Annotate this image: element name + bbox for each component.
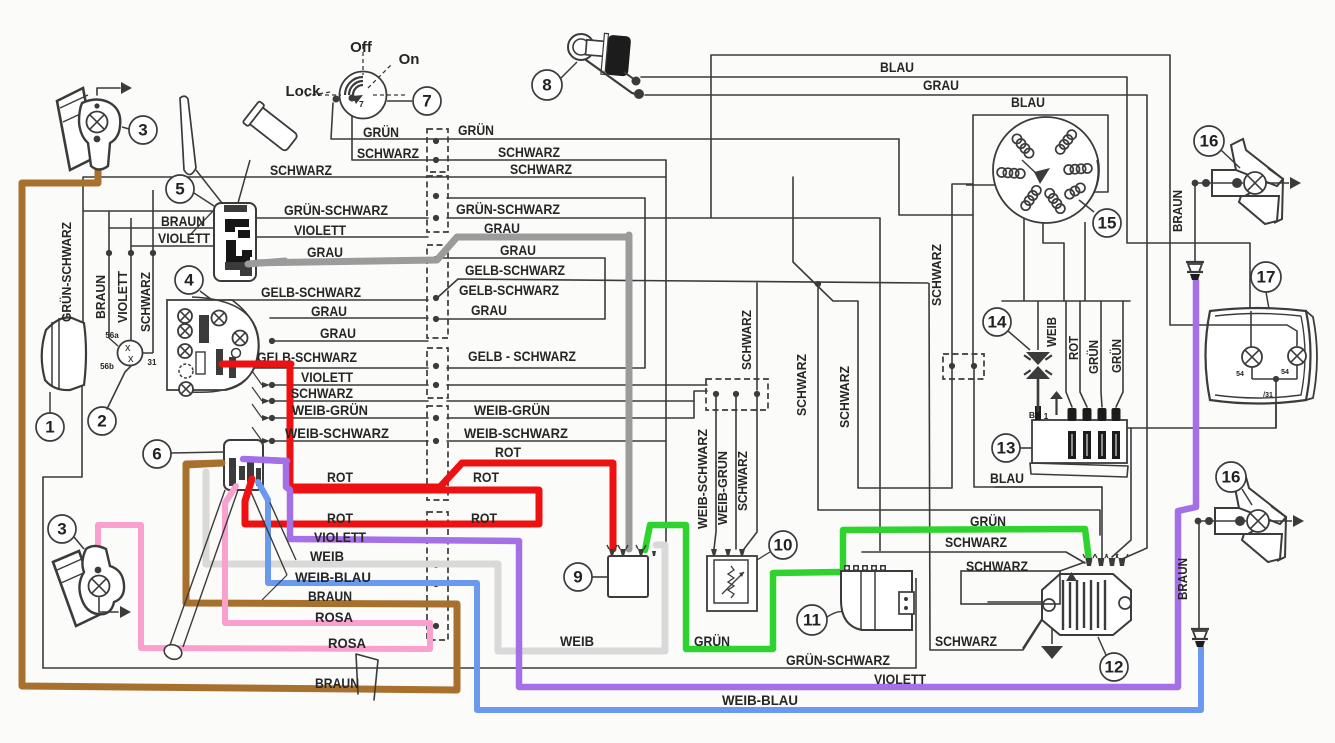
svg-text:BRAUN: BRAUN	[315, 675, 359, 691]
svg-text:16: 16	[1222, 468, 1241, 487]
wire WEIB (white)	[206, 472, 665, 651]
wire: GELB-SCHWARZ left row	[230, 299, 428, 301]
wire: regulator ground & frame	[988, 601, 1046, 603]
svg-text:GRAU: GRAU	[320, 325, 356, 341]
throttle grip	[243, 101, 301, 154]
ignition coil 9	[564, 545, 656, 597]
svg-text:SCHWARZ: SCHWARZ	[291, 385, 353, 401]
wire: BLAU magneto to regulator	[972, 115, 974, 366]
svg-text:WEIB-BLAU: WEIB-BLAU	[722, 692, 798, 708]
surge arrester 14	[983, 308, 1052, 412]
svg-text:GRAU: GRAU	[923, 77, 959, 93]
wire: headlamp to switch	[83, 210, 214, 212]
svg-text:14: 14	[988, 313, 1007, 332]
wire GRAU (grey)	[250, 237, 627, 263]
control lever sketch	[170, 490, 225, 645]
wire	[858, 487, 952, 489]
svg-text:x: x	[128, 353, 134, 365]
svg-text:3: 3	[57, 520, 66, 539]
wire: WEIB-SCHWARZ right	[447, 440, 666, 442]
svg-text:6: 6	[152, 445, 161, 464]
wire: GRUEN-SCHWARZ bottom run	[43, 667, 916, 669]
svg-text:BRAUN: BRAUN	[1175, 558, 1190, 600]
svg-text:GRÜN-SCHWARZ: GRÜN-SCHWARZ	[786, 652, 890, 668]
dimmer switch 6	[143, 440, 263, 490]
wire	[1112, 428, 1131, 557]
turn signal lamp 3 (rear left)	[48, 515, 131, 626]
svg-text:54: 54	[1236, 371, 1244, 378]
svg-text:13: 13	[997, 439, 1016, 458]
connector strip	[427, 129, 448, 172]
svg-text:9: 9	[573, 568, 582, 587]
svg-text:GRÜN-SCHWARZ: GRÜN-SCHWARZ	[284, 202, 388, 218]
wire: top BLAU / GRAU from horn	[711, 54, 1170, 56]
wire: magneto center feed	[966, 184, 1040, 186]
handlebar switch 5	[166, 175, 256, 281]
svg-text:GRAU: GRAU	[471, 302, 507, 318]
svg-text:GRAU: GRAU	[311, 303, 347, 319]
svg-text:GRÜN: GRÜN	[1086, 340, 1101, 374]
svg-text:BRAUN: BRAUN	[161, 213, 205, 229]
svg-text:BRAUN: BRAUN	[308, 588, 352, 604]
svg-text:SCHWARZ: SCHWARZ	[929, 244, 944, 306]
turn signal lamp 3 (front left)	[57, 82, 157, 170]
terminal block 13	[992, 391, 1128, 477]
clutch lever	[180, 96, 196, 174]
wire: GELB-SCHWARZ long row to right	[437, 279, 928, 298]
svg-text:GELB - SCHWARZ: GELB - SCHWARZ	[468, 348, 576, 364]
svg-text:GELB-SCHWARZ: GELB-SCHWARZ	[465, 262, 565, 278]
svg-text:5: 5	[175, 180, 184, 199]
headlamp 1	[36, 318, 86, 442]
svg-text:ROT: ROT	[1066, 336, 1081, 360]
svg-text:VIOLETT: VIOLETT	[158, 230, 210, 246]
wire: BRAUN bulb feed	[109, 227, 218, 229]
svg-text:WEIB-GRÜN: WEIB-GRÜN	[474, 402, 550, 418]
wire: comp10 connector feeds	[272, 384, 428, 386]
svg-text:GRÜN: GRÜN	[1109, 339, 1124, 373]
svg-text:1: 1	[45, 418, 54, 437]
svg-text:8: 8	[542, 76, 551, 95]
wire: SCHWARZ loop right of connector	[428, 176, 666, 178]
svg-text:16: 16	[1200, 132, 1219, 151]
wire VIOLETT (violet)	[245, 281, 1196, 687]
wire: headlamp frame left	[82, 177, 84, 342]
wire	[1122, 548, 1147, 559]
connector 2pol	[943, 354, 984, 379]
wire: GRAU loop 258/319	[443, 257, 605, 259]
svg-text:ROSA: ROSA	[328, 635, 366, 651]
svg-text:SCHWARZ: SCHWARZ	[138, 272, 153, 332]
wire: magneto leads down	[1023, 212, 1025, 301]
svg-text:BRAUN: BRAUN	[93, 275, 108, 319]
svg-text:GRÜN-SCHWARZ: GRÜN-SCHWARZ	[456, 201, 560, 217]
svg-text:BRAUN: BRAUN	[1170, 190, 1185, 232]
svg-text:11: 11	[803, 611, 821, 630]
svg-text:GRÜN-SCHWARZ: GRÜN-SCHWARZ	[59, 222, 74, 322]
wire: comp10 drops	[714, 397, 716, 549]
svg-text:VIOLETT: VIOLETT	[314, 529, 366, 545]
svg-text:VIOLETT: VIOLETT	[874, 671, 926, 687]
plug front	[1194, 183, 1196, 262]
switch cluster 4	[167, 266, 259, 396]
svg-text:WEIB-BLAU: WEIB-BLAU	[295, 569, 371, 585]
svg-text:BLAU: BLAU	[880, 59, 914, 75]
wire: GRAU left row	[270, 317, 428, 319]
junction dots	[433, 138, 439, 144]
svg-text:SCHWARZ: SCHWARZ	[794, 354, 809, 416]
wire: GRUEN-SCHWARZ left	[254, 217, 428, 219]
wire: GRAU left row2	[272, 340, 428, 342]
plug rear	[1198, 521, 1200, 629]
wire: BLAU to regulator right	[995, 486, 1102, 488]
svg-text:GRÜN: GRÜN	[694, 633, 730, 649]
wire: bulb columns	[108, 211, 110, 338]
wire: handlebar SCHWARZ diagonal	[793, 177, 858, 301]
svg-text:WEIB-GRÜN: WEIB-GRÜN	[715, 451, 730, 525]
wire: GRUEN-SCHWARZ right	[447, 217, 880, 219]
svg-text:ROSA: ROSA	[315, 609, 353, 625]
wire: tail lamp leads	[1250, 311, 1252, 347]
svg-text:SCHWARZ: SCHWARZ	[739, 310, 754, 370]
svg-text:WEIB: WEIB	[1044, 317, 1059, 347]
svg-text:ROT: ROT	[495, 444, 521, 460]
wire BRAUN (brown)	[22, 135, 457, 690]
svg-text:56a: 56a	[105, 331, 119, 340]
svg-text:VIOLETT: VIOLETT	[301, 369, 353, 385]
wire: VIOLETT bulb feed	[131, 245, 218, 247]
ground	[1041, 646, 1063, 659]
tail light 17	[1206, 262, 1318, 428]
svg-text:WEIB: WEIB	[560, 633, 594, 649]
wire: magneto BLAU frame	[973, 115, 1108, 192]
svg-text:GRAU: GRAU	[484, 220, 520, 236]
svg-text:SCHWARZ: SCHWARZ	[357, 145, 419, 161]
cluster pin fan	[262, 382, 270, 388]
svg-text:SCHWARZ: SCHWARZ	[966, 558, 1028, 574]
svg-text:SCHWARZ: SCHWARZ	[498, 144, 560, 160]
svg-text:SCHWARZ: SCHWARZ	[735, 451, 750, 511]
svg-text:WEIB-SCHWARZ: WEIB-SCHWARZ	[464, 425, 568, 441]
svg-text:7: 7	[359, 99, 364, 109]
svg-text:WEIB: WEIB	[310, 548, 344, 564]
svg-text:On: On	[399, 51, 420, 68]
wire: magneto SCHWARZ drop	[951, 184, 953, 488]
svg-text:BLAU: BLAU	[990, 470, 1024, 486]
wire: comp11 feeds	[817, 283, 819, 510]
wire: tail light leads	[1126, 427, 1276, 429]
svg-text:WEIB-GRÜN: WEIB-GRÜN	[292, 402, 368, 418]
svg-text:7: 7	[422, 92, 431, 111]
svg-text:4: 4	[184, 271, 194, 290]
svg-text:WEIB-SCHWARZ: WEIB-SCHWARZ	[285, 425, 389, 441]
svg-text:12: 12	[1105, 658, 1124, 677]
wire: SCHWARZ to regulator	[862, 552, 1085, 563]
svg-text:SCHWARZ: SCHWARZ	[510, 161, 572, 177]
svg-text:ROT: ROT	[473, 469, 499, 485]
svg-text:GELB-SCHWARZ: GELB-SCHWARZ	[459, 282, 559, 298]
svg-text:31: 31	[148, 358, 157, 367]
svg-text:ROT: ROT	[327, 469, 353, 485]
wire tip overlays	[222, 361, 291, 368]
switch 10	[707, 531, 797, 611]
flywheel magneto 15	[993, 117, 1121, 237]
svg-text:ROT: ROT	[471, 510, 497, 526]
wire	[952, 183, 973, 185]
svg-text:SCHWARZ: SCHWARZ	[270, 162, 332, 178]
frame sketch bottom	[356, 654, 378, 700]
wire: leads into terminal block	[1066, 301, 1072, 407]
svg-text:GRÜN: GRÜN	[458, 122, 494, 138]
svg-text:2: 2	[97, 412, 106, 431]
svg-text:SCHWARZ: SCHWARZ	[945, 534, 1007, 550]
wire ROSA (pink)	[98, 486, 430, 649]
wire: GELB-SCHWARZ row 368	[447, 367, 645, 369]
wire: SCHWARZ left row	[83, 176, 428, 178]
CDI unit 11	[797, 565, 914, 635]
connector 3pol	[706, 379, 768, 410]
svg-text:/31: /31	[1263, 392, 1273, 399]
svg-text:SCHWARZ: SCHWARZ	[837, 366, 852, 428]
turn signal 16 (rear right)	[1195, 477, 1304, 562]
svg-text:GRAU: GRAU	[500, 242, 536, 258]
wire ROT (red)	[222, 364, 613, 549]
svg-text:WEIB-SCHWARZ: WEIB-SCHWARZ	[695, 429, 710, 529]
svg-text:GRÜN: GRÜN	[970, 513, 1006, 529]
svg-text:GRAU: GRAU	[307, 244, 343, 260]
wire: SCHWARZ ground run	[930, 609, 1049, 650]
svg-text:ROT: ROT	[327, 510, 353, 526]
svg-text:BLAU: BLAU	[1011, 94, 1045, 110]
svg-text:VIOLETT: VIOLETT	[115, 271, 130, 323]
svg-text:GRÜN: GRÜN	[363, 124, 399, 140]
wire GRUEN (green)	[645, 525, 840, 649]
svg-text:VIOLETT: VIOLETT	[294, 222, 346, 238]
svg-text:17: 17	[1257, 268, 1276, 287]
svg-text:56b: 56b	[100, 362, 114, 371]
wire WEIB-BLAU (blue)	[258, 482, 1201, 710]
svg-text:10: 10	[774, 536, 793, 555]
svg-text:54: 54	[1281, 369, 1289, 376]
ignition switch 7	[306, 45, 441, 119]
wire: GELB-SCHWARZ left row2	[230, 367, 428, 369]
wire: WEIB-GRUEN right	[447, 391, 707, 418]
headlamp bulb 2	[88, 331, 157, 435]
wire: SCHWARZ row 198	[447, 197, 645, 199]
svg-text:15: 15	[1098, 214, 1117, 233]
svg-text:3: 3	[138, 121, 147, 140]
svg-text:B: B	[1029, 410, 1035, 420]
SCHWARZ loop box	[961, 571, 1060, 604]
svg-text:Lock: Lock	[285, 83, 321, 100]
turn signal 16 (front right)	[1192, 139, 1301, 224]
wire: VIOLETT switch row	[254, 236, 428, 238]
svg-text:GELB-SCHWARZ: GELB-SCHWARZ	[261, 284, 361, 300]
svg-text:SCHWARZ: SCHWARZ	[935, 633, 997, 649]
svg-text:1: 1	[1044, 411, 1049, 421]
regulator 12	[1041, 554, 1131, 681]
wire: ignition switch feeds	[331, 103, 899, 139]
svg-text:Off: Off	[350, 39, 373, 56]
horn 8	[532, 32, 644, 100]
